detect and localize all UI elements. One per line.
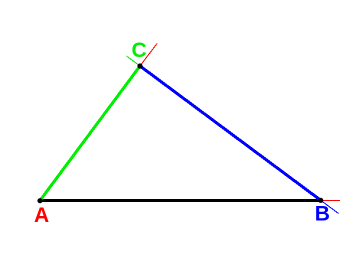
wire: thin green extension of BC beyond C [127,56,141,66]
wire: side AC (green) [40,66,140,201]
node B (vertex dot) [318,198,323,203]
node A (vertex dot) [37,198,42,203]
wire: side CB (blue) [140,66,321,201]
svg-text:A: A [34,204,49,227]
wire: side AB (black) [38,199,323,202]
wire: thin red extension of AB beyond B [322,200,340,202]
svg-text:C: C [132,39,147,62]
wire: thin red extension of AC beyond C [140,44,157,67]
node C (vertex dot) [137,63,142,68]
svg-text:B: B [315,202,330,225]
wire: thin blue extension of CB beyond B [321,201,339,214]
